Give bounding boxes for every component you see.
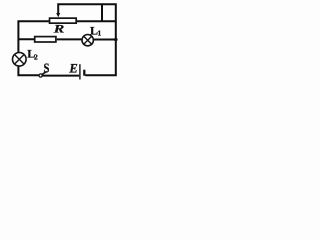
svg-text:R: R	[53, 22, 65, 36]
label S	[44, 60, 50, 75]
wire: rheostat slider loop, right vertical and bottom right	[58, 4, 116, 75]
wire: lamp L1 to right vertical	[93, 39, 116, 41]
wire: top right from rheostat to right vertical	[77, 20, 116, 22]
lamp L1	[82, 35, 93, 46]
battery E long plate	[79, 64, 81, 79]
wire: below lamp L2 to bottom wire and switch	[18, 66, 39, 75]
switch S pivot	[39, 74, 42, 77]
resistor R2 fixed box	[35, 37, 56, 42]
wire: top-left corner and left vertical down to lamp L2	[18, 21, 49, 52]
battery E short plate	[83, 70, 85, 76]
lamp L2	[12, 53, 26, 67]
wire: middle row between resistor and lamp L1	[57, 38, 83, 40]
rheostat slider arrow	[56, 4, 60, 17]
resistor R1 rheostat box	[50, 18, 77, 23]
label R	[53, 22, 65, 36]
svg-text:2: 2	[34, 52, 38, 61]
svg-text:E: E	[68, 61, 77, 75]
wire: switch to battery	[42, 75, 79, 77]
wire: middle row left segment	[18, 38, 34, 40]
svg-text:S: S	[44, 60, 50, 75]
switch S lever	[42, 71, 47, 74]
wire: loop vertical joining top wire	[101, 4, 103, 21]
svg-text:1: 1	[98, 28, 102, 37]
node junction right	[114, 38, 118, 42]
